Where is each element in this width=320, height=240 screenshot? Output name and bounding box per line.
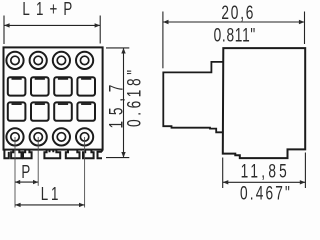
- square notch r1c3: [58, 78, 68, 80]
- square opening r2c4: [77, 102, 95, 120]
- housing outline: [223, 48, 305, 158]
- dimension P bottom: [15, 162, 38, 184]
- connector body outline: [4, 47, 103, 149]
- square opening r2c2: [31, 102, 49, 120]
- svg-text:0.467": 0.467": [240, 182, 292, 204]
- left edge tab: [4, 150, 8, 158]
- top terminal circles row: [6, 52, 93, 69]
- T-tab 2: [23, 150, 32, 158]
- square notch r2c4: [81, 103, 91, 105]
- dimension 20,6 / 0.811" top: [163, 2, 305, 69]
- square notch r2c3: [58, 103, 68, 105]
- T-tab 4: [66, 150, 80, 158]
- svg-text:11,85: 11,85: [241, 160, 290, 182]
- svg-text:L1+P: L1+P: [22, 0, 78, 19]
- square notch r1c1: [12, 78, 22, 80]
- svg-text:20,6: 20,6: [221, 2, 255, 24]
- terminal circle top 1: [6, 52, 23, 69]
- svg-text:L1: L1: [41, 184, 62, 205]
- extension line pin4 (for L1): [84, 137, 86, 208]
- T-tab 5: [83, 150, 94, 158]
- square opening r1c3: [54, 77, 72, 95]
- extension line pin1 (for P and L1): [14, 137, 16, 208]
- svg-text:0.618": 0.618": [123, 66, 145, 127]
- svg-text:0.811": 0.811": [214, 24, 256, 46]
- right edge tab: [98, 150, 103, 158]
- square opening r2c1: [8, 102, 26, 120]
- square openings row 1: [8, 77, 95, 95]
- square opening r1c2: [31, 77, 49, 95]
- terminal circle bottom 2: [30, 128, 47, 145]
- square openings row 2: [8, 102, 95, 120]
- terminal circle bottom 4: [76, 128, 93, 145]
- bottom terminal circles row: [6, 128, 93, 145]
- square opening r1c1: [8, 77, 26, 95]
- terminal circle bottom 1: [6, 128, 23, 145]
- terminal circle top 3: [53, 52, 70, 69]
- terminal circle bottom 3: [53, 128, 70, 145]
- square notch r2c1: [12, 103, 22, 105]
- dimension L1+P top: [4, 0, 100, 44]
- dimension 11,85 / 0.467" bottom: [223, 153, 306, 205]
- T-tab 3: [44, 150, 60, 158]
- plug profile: [163, 62, 223, 132]
- solder tabs under body: [4, 150, 102, 158]
- terminal circle top 4: [76, 52, 93, 69]
- square opening r1c4: [77, 77, 95, 95]
- T-tab 1: [11, 150, 21, 158]
- dimension 15,7 / 0.618" right of front view: [105, 48, 145, 158]
- svg-text:P: P: [21, 162, 30, 183]
- extension line pin2 (for P): [37, 137, 39, 186]
- square notch r1c4: [81, 78, 91, 80]
- square notch r2c2: [35, 103, 45, 105]
- terminal circle top 2: [30, 52, 47, 69]
- dimension L1 bottom: [15, 184, 85, 207]
- square opening r2c3: [54, 102, 72, 120]
- square notch r1c2: [35, 78, 45, 80]
- square opening top notches: [12, 79, 92, 104]
